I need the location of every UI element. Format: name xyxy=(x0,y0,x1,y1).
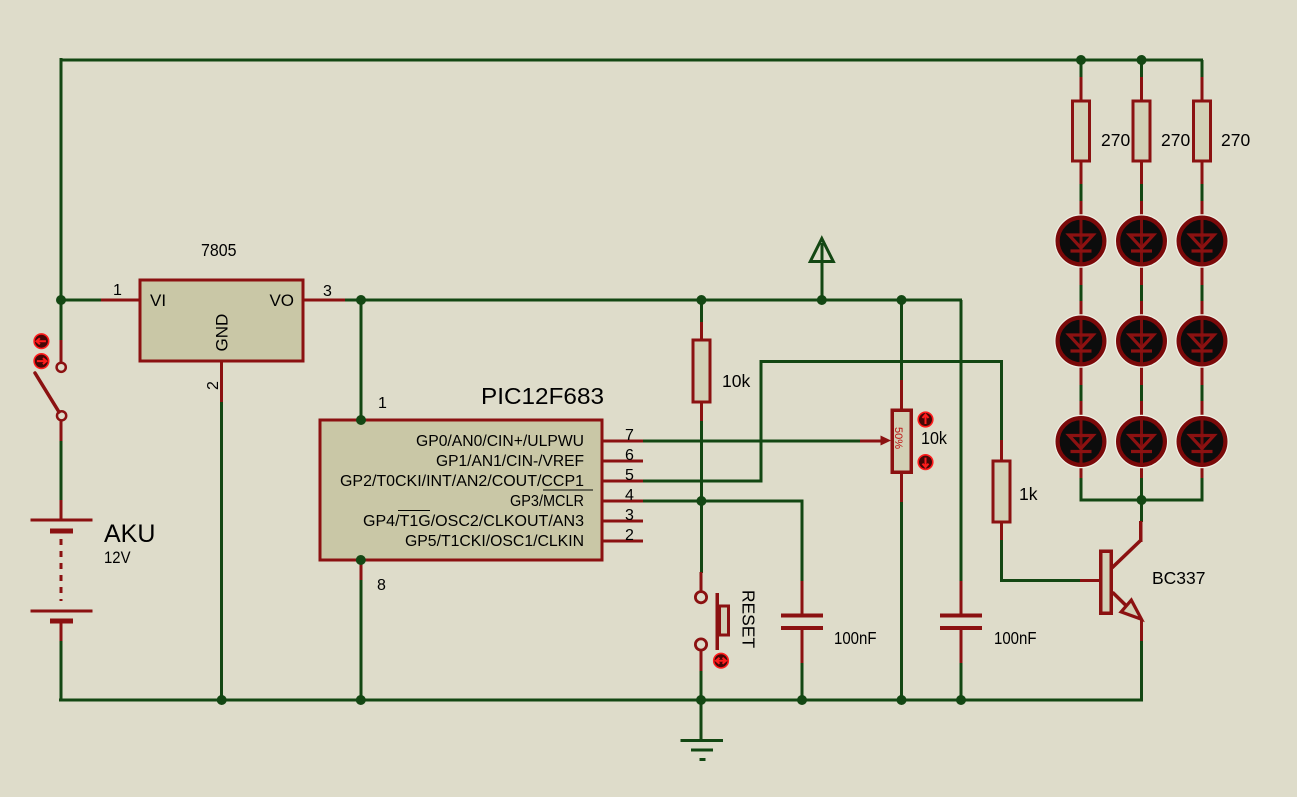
svg-text:270: 270 xyxy=(1161,130,1190,150)
svg-text:10k: 10k xyxy=(722,371,750,391)
svg-text:270: 270 xyxy=(1221,130,1250,150)
svg-text:VI: VI xyxy=(150,291,166,310)
svg-text:100nF: 100nF xyxy=(834,628,877,648)
svg-text:10k: 10k xyxy=(921,428,947,448)
svg-text:2: 2 xyxy=(625,527,634,544)
svg-text:VO: VO xyxy=(269,291,294,310)
svg-text:PIC12F683: PIC12F683 xyxy=(481,383,604,409)
svg-text:7: 7 xyxy=(625,427,634,444)
svg-text:GP2/T0CKI/INT/AN2/COUT/CCP1: GP2/T0CKI/INT/AN2/COUT/CCP1 xyxy=(340,473,584,490)
svg-text:270: 270 xyxy=(1101,130,1130,150)
svg-text:3: 3 xyxy=(625,507,634,524)
svg-text:GP4/T1G/OSC2/CLKOUT/AN3: GP4/T1G/OSC2/CLKOUT/AN3 xyxy=(363,513,584,530)
svg-text:1: 1 xyxy=(113,282,122,299)
svg-text:BC337: BC337 xyxy=(1152,568,1206,588)
svg-text:3: 3 xyxy=(323,283,332,300)
svg-text:5: 5 xyxy=(625,467,634,484)
svg-text:RESET: RESET xyxy=(739,590,759,649)
svg-text:GP3/MCLR: GP3/MCLR xyxy=(510,493,584,510)
svg-text:4: 4 xyxy=(625,487,634,504)
svg-text:GP5/T1CKI/OSC1/CLKIN: GP5/T1CKI/OSC1/CLKIN xyxy=(405,533,584,550)
svg-text:GND: GND xyxy=(213,314,232,352)
svg-text:1: 1 xyxy=(378,395,387,412)
svg-text:100nF: 100nF xyxy=(994,628,1037,648)
svg-text:GP1/AN1/CIN-/VREF: GP1/AN1/CIN-/VREF xyxy=(436,453,584,470)
svg-text:7805: 7805 xyxy=(201,240,237,260)
svg-text:2: 2 xyxy=(205,381,222,390)
svg-text:50%: 50% xyxy=(892,427,904,449)
svg-text:1k: 1k xyxy=(1019,484,1038,504)
svg-text:AKU: AKU xyxy=(104,520,155,548)
svg-text:6: 6 xyxy=(625,447,634,464)
svg-text:8: 8 xyxy=(377,577,386,594)
svg-text:GP0/AN0/CIN+/ULPWU: GP0/AN0/CIN+/ULPWU xyxy=(416,433,584,450)
svg-text:12V: 12V xyxy=(104,548,131,567)
